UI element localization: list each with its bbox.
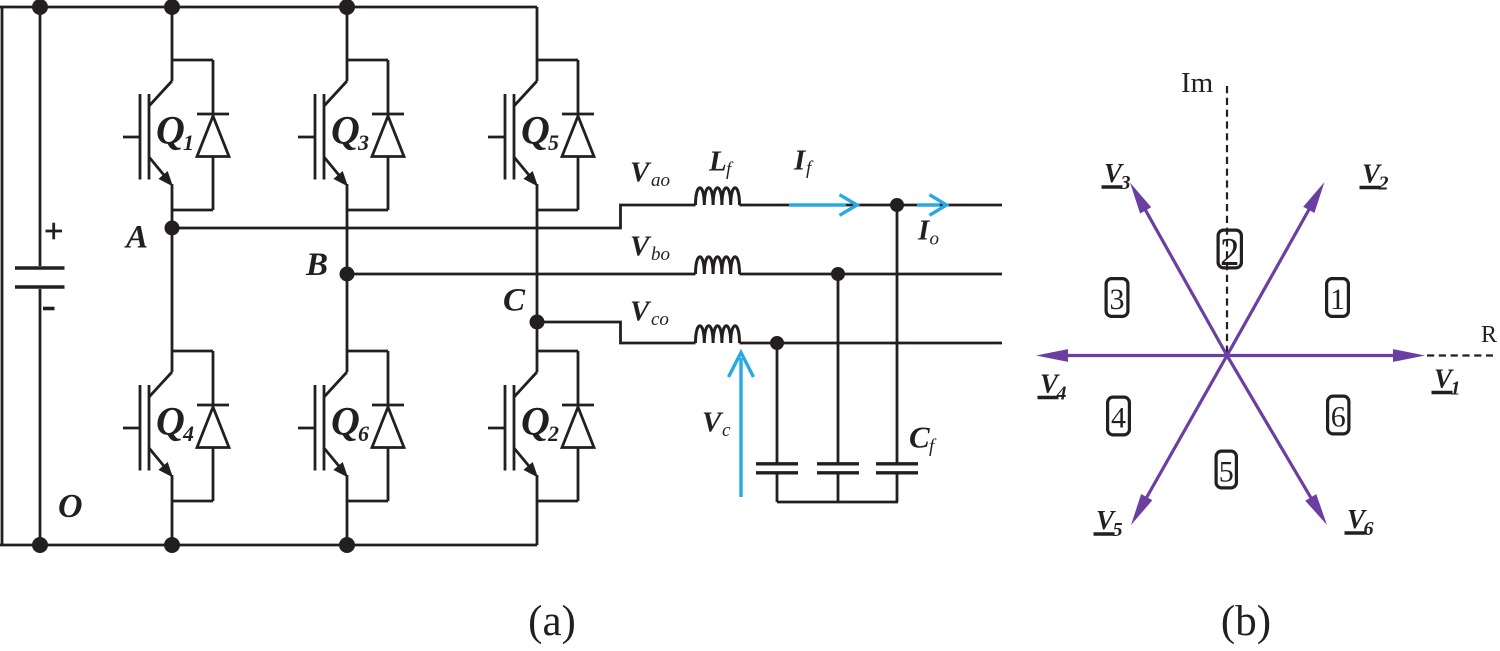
label V6	[1345, 504, 1374, 540]
wire phase C after inductor	[740, 342, 1003, 345]
vector V3	[1130, 183, 1227, 356]
vector V1	[1227, 349, 1425, 362]
diode of Q6	[372, 351, 404, 501]
wire phase B after inductor	[740, 273, 1003, 276]
node B	[340, 267, 355, 282]
svg-text:Q: Q	[156, 399, 185, 444]
sector box 2	[1218, 230, 1241, 273]
wire leg bottom (to bus)	[346, 501, 349, 545]
wire Q2 branch	[537, 351, 578, 502]
svg-text:1: 1	[183, 130, 194, 155]
svg-text:3: 3	[357, 130, 369, 155]
label V1	[1432, 364, 1461, 400]
svg-text:3: 3	[1120, 172, 1131, 194]
sector box 6	[1328, 396, 1349, 434]
vector V6	[1227, 356, 1327, 526]
vector V5	[1131, 356, 1227, 526]
svg-text:V: V	[630, 296, 652, 328]
R axis (dashed)	[1427, 354, 1493, 356]
wire leg bottom (to bus)	[171, 501, 174, 545]
svg-text:1: 1	[1451, 378, 1461, 400]
diode of Q2	[562, 351, 594, 501]
label + (positive terminal)	[46, 223, 63, 240]
vector V2	[1227, 182, 1325, 356]
svg-text:Q: Q	[331, 108, 360, 153]
svg-text:V: V	[630, 157, 652, 189]
inductor Lf phase C	[696, 326, 740, 343]
svg-text:5: 5	[548, 130, 559, 155]
svg-text:o: o	[930, 229, 940, 250]
DC-link capacitor	[15, 7, 65, 545]
wire Q3 branch	[347, 60, 388, 211]
node phase B filter tap	[831, 267, 845, 281]
transistor Q6	[298, 372, 348, 478]
wire phase B output	[347, 273, 696, 276]
svg-text:V: V	[702, 407, 724, 439]
wire phase C output	[537, 322, 696, 343]
diode of Q5	[562, 60, 594, 210]
transistor Q5	[488, 81, 538, 187]
label V4	[1038, 369, 1067, 405]
svg-text:I: I	[793, 145, 807, 177]
junction dots on top rail	[32, 0, 355, 15]
junction dots on bottom bus	[32, 537, 355, 553]
svg-text:O: O	[58, 488, 83, 525]
wire Q6 branch	[347, 351, 388, 502]
node phase A filter tap	[890, 198, 904, 212]
diode of Q3	[372, 60, 404, 210]
svg-text:C: C	[909, 420, 930, 455]
svg-text:R: R	[1481, 322, 1497, 348]
wire Q5 branch	[537, 60, 578, 211]
sector box 1	[1327, 279, 1349, 317]
wire left edge	[1, 7, 4, 545]
node C	[530, 315, 545, 330]
diode of Q1	[197, 60, 229, 210]
svg-text:4: 4	[1111, 402, 1126, 435]
arrow Io (output current)	[917, 195, 947, 216]
node phase C filter tap	[770, 336, 784, 350]
wire phase A output	[172, 205, 696, 228]
svg-text:c: c	[722, 420, 731, 441]
svg-text:Q: Q	[521, 108, 550, 153]
transistor Q3	[298, 81, 348, 187]
wire Q1 branch	[172, 60, 213, 211]
svg-text:Q: Q	[331, 399, 360, 444]
svg-text:f: f	[806, 158, 814, 179]
label V5	[1094, 505, 1123, 541]
wire leg top (rail to Q1)	[171, 7, 174, 60]
inductor Lf phase A	[696, 188, 740, 205]
svg-text:2: 2	[1220, 231, 1240, 274]
node A	[165, 221, 180, 236]
svg-text:Q: Q	[521, 399, 550, 444]
svg-text:A: A	[124, 220, 148, 256]
svg-text:6: 6	[1331, 401, 1346, 434]
capacitor Cf phase C	[756, 343, 798, 502]
svg-text:1: 1	[1330, 283, 1345, 316]
svg-text:4: 4	[182, 421, 194, 446]
sector box 3	[1106, 279, 1128, 317]
wire phase A after inductor	[740, 204, 1003, 207]
wire leg bottom (bus corner)	[536, 501, 539, 545]
svg-text:2: 2	[1378, 173, 1389, 195]
wire top DC rail	[0, 6, 537, 9]
capacitor Cf phase B	[817, 274, 859, 502]
vector V4	[1036, 349, 1227, 362]
wire leg middle	[171, 210, 174, 351]
svg-text:4: 4	[1056, 383, 1067, 405]
inductor Lf phase B	[696, 257, 740, 274]
wire leg top (rail to Q3)	[346, 7, 349, 60]
svg-text:Im: Im	[1181, 67, 1214, 99]
diode of Q4	[197, 351, 229, 501]
svg-text:co: co	[651, 309, 669, 330]
svg-text:bo: bo	[651, 244, 670, 265]
svg-text:V: V	[630, 231, 652, 263]
wire bottom DC bus	[0, 544, 537, 547]
wire leg middle	[346, 210, 349, 351]
wire leg top (rail corner to Q5)	[536, 7, 539, 60]
sector box 4	[1108, 397, 1130, 435]
arrow Vc (capacitor voltage)	[729, 353, 754, 498]
svg-text:f: f	[726, 159, 734, 180]
sector box 5	[1216, 451, 1236, 488]
svg-text:(b): (b)	[1221, 598, 1271, 645]
svg-text:f: f	[929, 436, 937, 457]
wire capacitor common bus	[777, 501, 898, 504]
label - (negative terminal)	[43, 307, 55, 311]
label V2	[1360, 159, 1389, 195]
svg-text:6: 6	[1364, 518, 1374, 540]
Im axis (dashed)	[1226, 86, 1228, 355]
transistor Q2	[488, 372, 538, 478]
svg-text:2: 2	[547, 421, 559, 446]
svg-text:6: 6	[358, 421, 369, 446]
svg-text:5: 5	[1219, 456, 1234, 489]
svg-text:B: B	[305, 247, 328, 283]
svg-text:5: 5	[1113, 519, 1123, 541]
svg-text:C: C	[503, 283, 526, 319]
svg-text:ao: ao	[651, 170, 670, 191]
transistor Q4	[123, 372, 173, 478]
wire Q4 branch	[172, 351, 213, 502]
transistor Q1	[123, 81, 173, 187]
svg-text:L: L	[708, 146, 727, 178]
capacitor Cf phase A	[876, 205, 918, 502]
svg-text:Q: Q	[156, 108, 185, 153]
arrow If (filter current)	[789, 195, 857, 216]
wire leg middle	[536, 210, 539, 351]
svg-text:(a): (a)	[528, 598, 576, 645]
label V3	[1102, 158, 1131, 194]
svg-text:3: 3	[1110, 283, 1125, 316]
